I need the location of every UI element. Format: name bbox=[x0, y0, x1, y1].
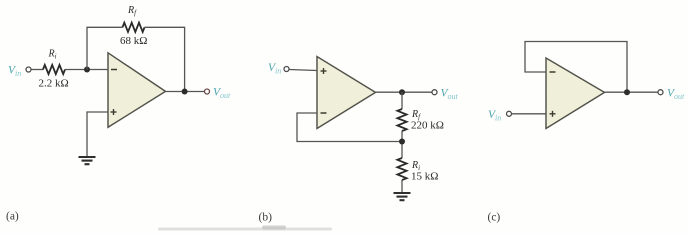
wire output (b) bbox=[376, 91, 433, 93]
wire ground from plus input (a) bbox=[87, 112, 108, 157]
resistor Rf (b) bbox=[397, 109, 406, 131]
resistor Ri (b) bbox=[397, 158, 406, 180]
ground (a) bbox=[79, 157, 96, 164]
wire Ri to opamp minus input (a) bbox=[65, 69, 108, 71]
op-amp U1 (a) bbox=[108, 53, 166, 128]
terminal Vin (b) bbox=[284, 67, 289, 72]
junction node (a) input bbox=[84, 67, 90, 73]
terminal Vout (a) bbox=[205, 89, 210, 94]
svg-text:Rf: Rf bbox=[127, 5, 137, 17]
svg-text:Vin: Vin bbox=[8, 65, 21, 79]
wire feedback to minus input (b) bbox=[297, 113, 402, 142]
wire output to Rf (b) bbox=[401, 92, 403, 109]
svg-text:Vin: Vin bbox=[488, 109, 501, 123]
ground (b) bbox=[394, 193, 411, 200]
svg-text:2.2 kΩ: 2.2 kΩ bbox=[39, 78, 69, 90]
wire output (a) bbox=[166, 91, 205, 93]
junction node (b) output bbox=[399, 89, 405, 95]
resistor Ri (a) bbox=[43, 65, 65, 74]
wire Vin to plus input (b) bbox=[289, 70, 317, 71]
svg-text:Vin: Vin bbox=[268, 62, 281, 76]
svg-text:Vout: Vout bbox=[213, 87, 231, 101]
op-amp U3 (c) bbox=[546, 58, 605, 129]
junction node (b) divider bbox=[399, 139, 405, 145]
terminal Vin (a) bbox=[26, 67, 31, 72]
svg-text:Vout: Vout bbox=[441, 88, 459, 102]
smudge artifact bottom bbox=[158, 228, 332, 231]
wire Vin to Ri (a) bbox=[31, 69, 43, 71]
terminal Vin (c) bbox=[507, 111, 512, 116]
svg-text:220 kΩ: 220 kΩ bbox=[411, 120, 444, 132]
wire Ri to ground (b) bbox=[401, 180, 403, 193]
svg-text:Vout: Vout bbox=[667, 88, 685, 102]
op-amp U2 (b) bbox=[317, 57, 376, 129]
plus sign (a) bbox=[111, 109, 117, 115]
wire Vin to plus input (c) bbox=[512, 113, 547, 115]
svg-text:Ri: Ri bbox=[48, 49, 57, 61]
svg-text:15 kΩ: 15 kΩ bbox=[411, 171, 438, 183]
svg-text:(a): (a) bbox=[6, 211, 19, 223]
plus sign (c) bbox=[550, 111, 556, 117]
resistor Rf (a) bbox=[123, 23, 145, 32]
svg-text:68 kΩ: 68 kΩ bbox=[120, 35, 147, 47]
svg-text:(b): (b) bbox=[259, 212, 273, 224]
smudge blob bbox=[262, 226, 286, 230]
wire feedback up (a) bbox=[87, 27, 123, 69]
wire feedback loop (c) bbox=[525, 42, 627, 93]
junction node (a) output bbox=[182, 89, 188, 95]
terminal Vout (c) bbox=[658, 90, 663, 95]
terminal Vout (b) bbox=[432, 90, 437, 95]
wire output (c) bbox=[605, 91, 659, 93]
minus sign (c) bbox=[550, 71, 556, 73]
junction node (c) output bbox=[624, 89, 630, 95]
wire Rf to junction (b) bbox=[401, 131, 403, 158]
minus sign (b) bbox=[321, 112, 327, 114]
plus sign (b) bbox=[321, 68, 327, 74]
wire feedback right and down (a) bbox=[145, 27, 185, 91]
minus sign (a) bbox=[111, 69, 117, 71]
svg-text:(c): (c) bbox=[488, 212, 501, 224]
